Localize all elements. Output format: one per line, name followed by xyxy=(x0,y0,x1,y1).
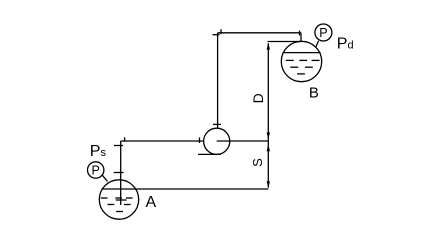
pump base tangent line xyxy=(198,153,221,155)
svg-text:A: A xyxy=(146,194,157,211)
svg-text:S: S xyxy=(250,158,265,167)
gauge Ps connector xyxy=(102,175,108,182)
discharge drop pipe into tank B xyxy=(300,33,302,42)
discharge riser above pump xyxy=(217,33,219,129)
svg-text:B: B xyxy=(309,85,319,102)
svg-text:D: D xyxy=(250,93,266,103)
svg-text:P: P xyxy=(92,163,100,177)
dimension arrow S top (up) xyxy=(267,144,270,151)
discharge pipe horizontal xyxy=(218,32,301,34)
pipe tick at discharge corner (horizontal) xyxy=(213,34,220,36)
tank B liquid dashes xyxy=(286,60,320,74)
tank A liquid level / S dimension extension line xyxy=(102,188,269,190)
dimension arrow S bottom (down) xyxy=(267,181,270,188)
D dimension extension line at tank B top xyxy=(268,41,302,43)
dimension arrow D bottom (down) xyxy=(267,132,270,139)
dimension arrow D top (up) xyxy=(267,43,270,50)
pipe tick at suction corner (vertical) xyxy=(124,137,126,142)
pressure gauge Ps circle xyxy=(88,162,104,178)
svg-text:Ps: Ps xyxy=(90,143,107,160)
pipe end tick inside tank A xyxy=(116,199,127,201)
pipe tick at suction corner (horizontal) xyxy=(114,145,123,147)
pipe tick at tank B inlet xyxy=(299,31,301,36)
pressure gauge Pd circle xyxy=(315,24,332,41)
suction riser pipe from tank A xyxy=(120,141,122,205)
tank A liquid dashes xyxy=(101,198,133,212)
tank B xyxy=(281,41,321,81)
tank B liquid level xyxy=(283,52,321,54)
dimension line D and S (vertical) xyxy=(267,43,269,187)
svg-text:P: P xyxy=(319,26,327,40)
pipe tick at discharge corner (vertical) xyxy=(220,29,222,34)
gauge Pd connector xyxy=(316,41,319,48)
pipe tick on riser xyxy=(114,172,124,174)
svg-text:Pd: Pd xyxy=(337,36,354,53)
pipe tick at pump inlet xyxy=(199,137,201,143)
pump circle xyxy=(204,128,230,154)
suction pipe horizontal to pump xyxy=(121,140,204,142)
pump centerline extension to dimension line xyxy=(217,140,269,142)
tank A xyxy=(99,180,138,219)
pipe tick above pump xyxy=(213,123,221,125)
